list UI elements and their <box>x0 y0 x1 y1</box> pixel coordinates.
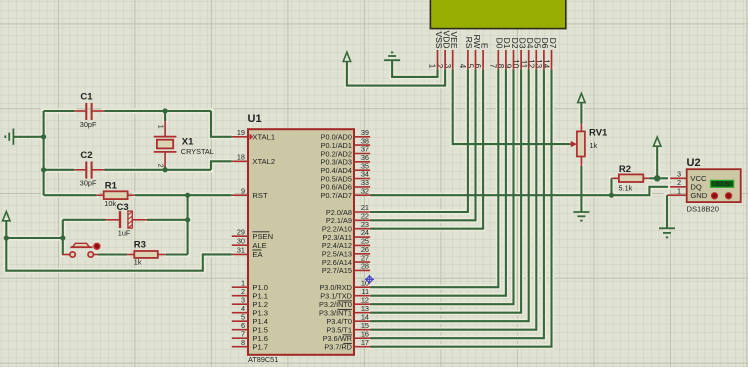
svg-text:C2: C2 <box>80 150 92 161</box>
resistor R2 <box>612 174 650 182</box>
wire R1 to RST pin <box>135 194 232 196</box>
pin number 1 (X1) <box>157 125 164 129</box>
svg-text:14: 14 <box>542 59 551 68</box>
potentiometer RV1 <box>570 124 585 166</box>
svg-text:XTAL1: XTAL1 <box>252 133 275 142</box>
wire D1 to P3.1 <box>370 69 506 295</box>
wire EA loop (bottom) <box>6 238 232 271</box>
svg-text:P0.7/AD7: P0.7/AD7 <box>321 191 352 200</box>
wire E to P2.2 <box>370 69 483 228</box>
label X1 <box>182 137 194 148</box>
power +5V arrow (VDD) <box>343 52 350 61</box>
sensor U2 DS18B20 body <box>687 169 741 202</box>
svg-text:P3.7/RD: P3.7/RD <box>324 343 352 352</box>
ground (U2) <box>659 228 675 237</box>
svg-text:DS18B20: DS18B20 <box>687 205 720 214</box>
U2 reference label <box>687 157 701 169</box>
svg-text:P2.7/A15: P2.7/A15 <box>322 266 352 275</box>
LCD display LCD1 (cropped at top) <box>430 0 565 29</box>
capacitor C3 (polarized) <box>63 211 147 228</box>
label C2 <box>80 150 92 161</box>
svg-text:AT89C51: AT89C51 <box>248 355 278 364</box>
svg-text:GND: GND <box>690 191 707 200</box>
wire VDD to power <box>347 62 445 86</box>
ground (RV1) <box>573 212 589 221</box>
svg-text:C3: C3 <box>117 202 129 213</box>
svg-text:29: 29 <box>237 227 245 236</box>
LCD pin stubs (red) <box>438 50 552 69</box>
svg-text:R3: R3 <box>134 239 146 250</box>
svg-text:5.1k: 5.1k <box>619 183 633 192</box>
overbar EA <box>252 249 261 251</box>
svg-text:9: 9 <box>241 186 245 195</box>
svg-text:30pF: 30pF <box>80 178 97 187</box>
value 5.1k <box>619 183 633 192</box>
svg-text:6: 6 <box>473 64 482 69</box>
pin XTAL1 arrowhead <box>250 134 254 140</box>
pin number 2 (X1) <box>157 164 164 168</box>
wire C1 to crystal node <box>104 110 211 112</box>
U2 value label DS18B20 <box>687 205 720 214</box>
svg-text:1uF: 1uF <box>118 229 131 238</box>
wire VEE to RV1 wiper <box>453 69 570 144</box>
wire RST net vertical <box>187 195 189 254</box>
svg-text:30pF: 30pF <box>80 120 97 129</box>
svg-text:C1: C1 <box>80 92 93 103</box>
overbar INT0 INT1 WR RD <box>338 301 352 344</box>
wire R3 to RST net <box>166 253 188 255</box>
label RV1 <box>589 128 608 139</box>
svg-text:1k: 1k <box>134 257 142 266</box>
resistor R1 <box>44 191 135 199</box>
wire D4 to P3.4 <box>370 69 529 321</box>
wire R2 to VCC node <box>649 177 668 179</box>
svg-text:E: E <box>479 43 489 49</box>
svg-text:CRYSTAL: CRYSTAL <box>181 147 214 156</box>
U1 reference label <box>248 113 262 125</box>
node VCC junction (U2) <box>654 175 660 181</box>
svg-text:X1: X1 <box>182 137 194 148</box>
value 1uF <box>118 229 131 238</box>
wire VSS to ground <box>392 60 437 77</box>
svg-text:30: 30 <box>237 236 245 245</box>
svg-text:R2: R2 <box>619 164 631 175</box>
wire C3 to RST net <box>147 219 188 221</box>
wire D0 to P3.0 <box>370 69 498 287</box>
wire RS to P2.0 <box>370 69 468 212</box>
svg-text:3: 3 <box>443 64 452 69</box>
svg-text:8: 8 <box>241 338 245 347</box>
wire U2 GND to ground <box>666 195 668 228</box>
node DQ / R2 junction <box>609 193 614 198</box>
wire power to button column <box>6 237 63 239</box>
wire ground to left rail <box>13 136 43 138</box>
power +5V arrow (left) <box>3 212 10 238</box>
svg-text:P1.7: P1.7 <box>252 343 268 352</box>
ground (sideways, left) <box>5 129 13 145</box>
ground (VSS, flipped) <box>384 52 400 60</box>
U2 indicator dot + <box>711 193 717 199</box>
value 10k <box>104 199 116 208</box>
node RST net / C3 junction <box>185 217 190 222</box>
svg-text:EA: EA <box>252 250 263 259</box>
wire crystal bottom node to XTAL2 <box>211 161 232 170</box>
wire left rail vertical <box>43 111 45 195</box>
svg-text:1k: 1k <box>590 141 598 150</box>
svg-text:37.5: 37.5 <box>716 182 730 189</box>
U1 value label AT89C51 <box>248 355 278 364</box>
svg-text:D7: D7 <box>548 38 558 49</box>
wire D5 to P3.5 <box>370 69 536 329</box>
resistor R3 <box>98 251 166 258</box>
wire D2 to P3.2 <box>370 69 513 304</box>
label C1 <box>80 92 93 103</box>
node crystal top <box>163 108 168 113</box>
node RST net junction <box>185 193 190 198</box>
wire D7 to P3.7 <box>370 69 551 346</box>
svg-text:U2: U2 <box>687 157 701 169</box>
origin marker (blue) <box>365 275 374 284</box>
value 30pF (C2) <box>80 178 97 187</box>
capacitor C2 <box>44 162 105 179</box>
svg-text:2: 2 <box>157 164 164 168</box>
label R1 <box>105 180 118 191</box>
wire RW to P2.1 <box>370 69 475 220</box>
svg-text:VEE: VEE <box>449 31 459 48</box>
svg-text:RST: RST <box>252 191 268 200</box>
U2 pin numbers <box>677 169 681 195</box>
svg-text:ALE: ALE <box>252 241 266 250</box>
svg-text:RV1: RV1 <box>589 128 608 139</box>
svg-text:R1: R1 <box>105 180 118 191</box>
label C3 <box>117 202 129 213</box>
crystal X1 <box>154 111 177 170</box>
wire D6 to P3.6 <box>370 69 544 338</box>
svg-text:XTAL2: XTAL2 <box>252 157 275 166</box>
svg-text:10k: 10k <box>104 199 116 208</box>
svg-text:31: 31 <box>237 246 245 255</box>
wire P0.7 to DQ (long) <box>370 187 668 195</box>
svg-text:32: 32 <box>361 186 369 195</box>
capacitor C1 <box>44 103 105 120</box>
push button <box>62 243 98 257</box>
op chip U1 AT89C51 body <box>248 129 354 355</box>
U2 pin labels VCC DQ GND <box>690 174 707 200</box>
svg-text:28: 28 <box>361 262 369 271</box>
svg-text:17: 17 <box>361 338 369 347</box>
wire C2 to crystal bottom node <box>104 169 211 171</box>
svg-text:1: 1 <box>677 186 681 195</box>
wire crystal node to XTAL1 <box>211 111 232 137</box>
wire R2 left to DQ net <box>610 178 612 195</box>
U2 temperature display 37.5 <box>711 180 734 188</box>
power +5V arrow (U2 VCC) <box>654 137 661 178</box>
LCD pin name labels VSS VDD VEE RS RW E D0-D7 <box>434 31 558 49</box>
svg-text:1: 1 <box>157 125 164 129</box>
svg-text:18: 18 <box>237 153 245 162</box>
wire RV1 to ground <box>580 166 582 212</box>
node power/button junction <box>4 235 9 240</box>
wire C3 left to button column <box>62 220 64 255</box>
wire D3 to P3.3 <box>370 69 521 312</box>
value 30pF (C1) <box>80 120 97 129</box>
value 1k (R3) <box>134 257 142 266</box>
label R2 <box>619 164 631 175</box>
node crystal bottom <box>163 167 168 172</box>
node button column junction <box>60 235 65 240</box>
svg-text:U1: U1 <box>248 113 262 125</box>
button actuator red dot <box>94 243 100 249</box>
node left rail / ground junction <box>41 134 46 139</box>
node left rail / C2 junction <box>41 167 46 172</box>
svg-text:PSEN: PSEN <box>252 232 273 241</box>
U2 indicator dot - <box>726 193 732 199</box>
label R3 <box>134 239 146 250</box>
U2 pin stubs 3 2 1 <box>667 178 687 195</box>
value CRYSTAL <box>181 147 214 156</box>
svg-text:19: 19 <box>237 128 245 137</box>
overbar PSEN <box>252 231 269 233</box>
power +5V arrow (RV1) <box>578 93 585 123</box>
value 1k (RV1) <box>590 141 598 150</box>
LCD pin numbers 1-14 <box>428 59 551 68</box>
